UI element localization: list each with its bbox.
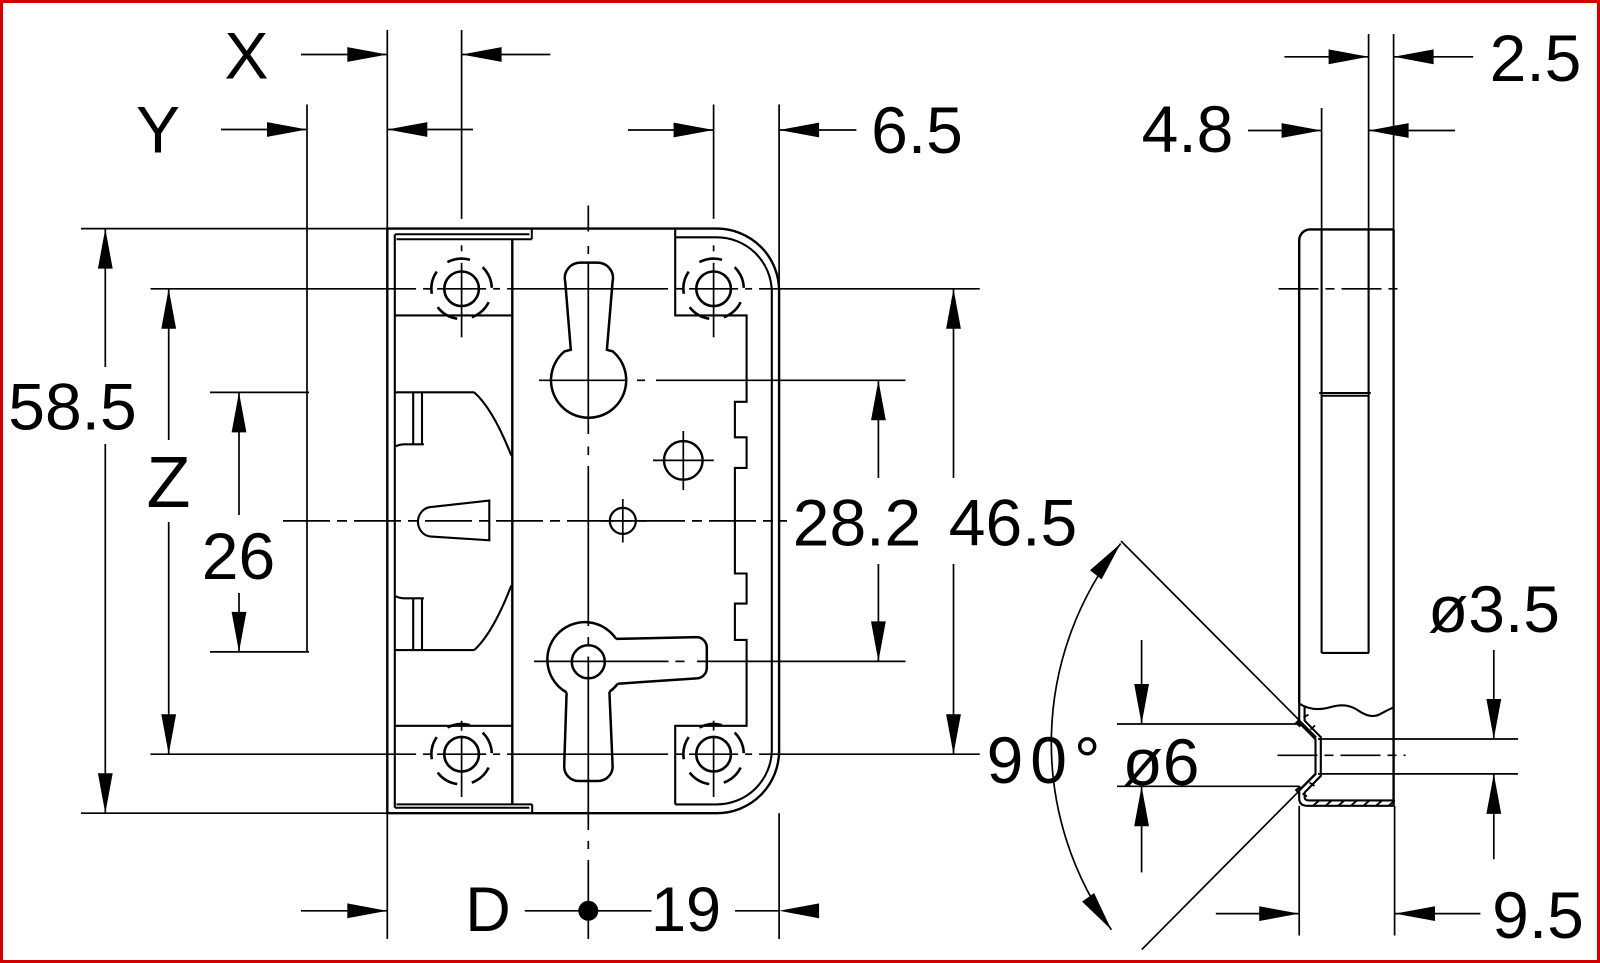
svg-text:X: X: [224, 19, 268, 93]
svg-text:90°: 90°: [987, 723, 1108, 797]
svg-text:28.2: 28.2: [793, 486, 921, 560]
svg-text:ø3.5: ø3.5: [1428, 572, 1560, 646]
svg-text:6.5: 6.5: [871, 93, 963, 167]
svg-text:58.5: 58.5: [8, 370, 136, 444]
svg-text:D: D: [465, 875, 511, 945]
svg-text:2.5: 2.5: [1490, 21, 1582, 95]
svg-text:26: 26: [202, 519, 275, 593]
svg-text:46.5: 46.5: [949, 486, 1077, 560]
svg-text:4.8: 4.8: [1142, 92, 1234, 166]
svg-text:19: 19: [651, 875, 721, 945]
svg-text:Y: Y: [136, 93, 180, 167]
svg-text:Z: Z: [147, 443, 191, 523]
svg-text:ø6: ø6: [1122, 725, 1199, 799]
svg-text:9.5: 9.5: [1492, 878, 1584, 952]
